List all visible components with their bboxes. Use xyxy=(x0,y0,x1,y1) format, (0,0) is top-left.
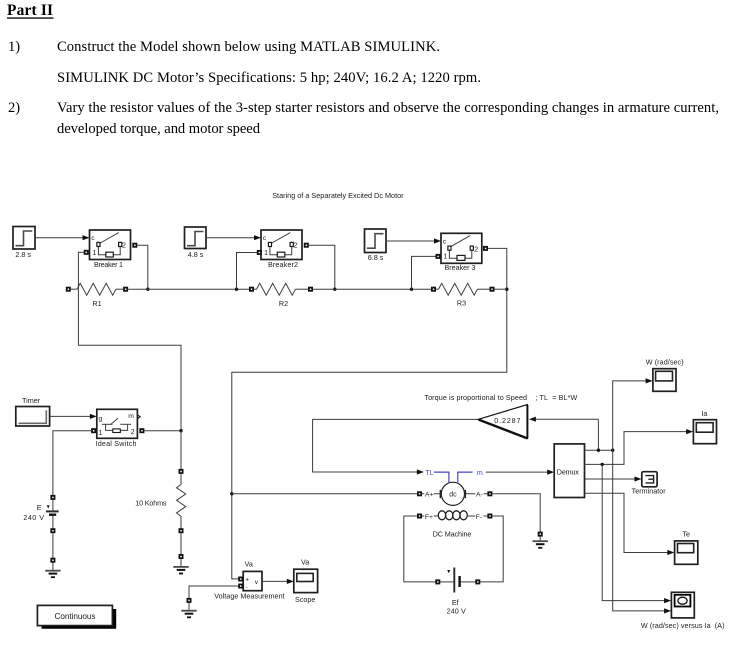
svg-text:4.8 s: 4.8 s xyxy=(188,250,204,259)
wire out1 up to W scope xyxy=(613,378,653,450)
wire Breaker1 port2 to resistor line xyxy=(137,245,148,289)
breaker B3 xyxy=(441,233,482,263)
svg-text:W (rad/sec) versus Ia (A): W (rad/sec) versus Ia (A) xyxy=(641,621,725,630)
svg-text:g: g xyxy=(99,416,103,423)
wire Step1 to Breaker1 c xyxy=(35,235,90,240)
svg-text:Va: Va xyxy=(245,560,253,569)
wire node down to 10 Kohms xyxy=(180,431,182,469)
svg-text:2: 2 xyxy=(131,429,135,436)
svg-text:-: - xyxy=(246,585,248,592)
svg-text:1): 1) xyxy=(8,39,20,55)
svg-text:A+: A+ xyxy=(425,492,434,499)
resistor 10 Kohms top port xyxy=(179,469,184,474)
svg-text:0.2287: 0.2287 xyxy=(494,416,520,425)
wire R2 to R3 xyxy=(313,288,431,290)
breaker B2 xyxy=(261,230,302,260)
junction R3 output joins vertical xyxy=(505,288,508,291)
battery E bottom port xyxy=(50,528,55,533)
junction below Breaker2 port2 xyxy=(333,288,336,291)
svg-text:Timer: Timer xyxy=(22,396,41,405)
block Ideal Switch U1 xyxy=(97,409,140,438)
ground below Voltage Measurement xyxy=(181,598,196,617)
svg-text:Staring of a Separately Excite: Staring of a Separately Excited Dc Motor xyxy=(272,191,404,200)
wire Ideal Switch port2 to node xyxy=(144,430,181,432)
left port of R3 xyxy=(431,287,436,292)
step source Step1 xyxy=(13,227,35,250)
svg-text:1: 1 xyxy=(443,254,447,261)
svg-text:1: 1 xyxy=(99,430,103,437)
right port of R1 xyxy=(123,287,128,292)
scope block Te xyxy=(675,541,698,564)
wire gain output to TL input xyxy=(313,419,478,474)
wire Timer to Ideal Switch g xyxy=(50,414,97,419)
port F+ of DC Machine xyxy=(417,512,438,521)
svg-text:2.8 s: 2.8 s xyxy=(15,250,31,259)
resistor R3 xyxy=(436,283,490,295)
XY graph block xyxy=(671,592,694,618)
wire R1 to R2 xyxy=(128,288,249,290)
demux block xyxy=(554,444,584,498)
svg-text:c: c xyxy=(443,239,447,246)
svg-text:dc: dc xyxy=(449,492,457,499)
port A+ of DC Machine xyxy=(417,490,440,499)
svg-text:A-: A- xyxy=(476,492,483,499)
svg-text:Demux: Demux xyxy=(557,467,580,476)
svg-text:c: c xyxy=(263,235,267,242)
port 2 of Ideal Switch xyxy=(139,428,144,433)
svg-text:1: 1 xyxy=(93,250,97,257)
svg-text:R3: R3 xyxy=(457,299,466,308)
svg-text:Ef: Ef xyxy=(452,598,459,607)
svg-text:2: 2 xyxy=(474,246,478,253)
svg-text:E: E xyxy=(37,503,42,512)
port 2 of Breaker1 xyxy=(132,243,137,248)
junction below Breaker2 port1 xyxy=(235,288,238,291)
port 1 of Breaker3 xyxy=(436,254,441,259)
svg-text:Continuous: Continuous xyxy=(55,612,96,621)
port F- of DC Machine xyxy=(468,512,492,521)
wire demux out4 to Te scope xyxy=(585,493,675,555)
port plus of Voltage Measurement xyxy=(238,577,243,582)
battery E top port xyxy=(50,495,55,500)
wire Breaker2 port1 down to R line xyxy=(237,253,258,290)
scope block Va xyxy=(294,569,318,592)
battery Ef (240 V DC source) xyxy=(440,568,475,593)
port 1 of Breaker2 xyxy=(257,250,262,255)
wire F+ to battery Ef xyxy=(404,516,436,582)
right port of R3 xyxy=(490,287,495,292)
right port of R2 xyxy=(308,287,313,292)
wire m hook (blue) xyxy=(458,472,473,482)
wire Ideal Switch port1 to battery E xyxy=(53,431,91,495)
port 1 of Breaker1 xyxy=(84,250,89,255)
step source Step3 xyxy=(365,229,387,253)
svg-text:c: c xyxy=(91,235,95,242)
step source Step2 xyxy=(185,227,207,249)
svg-text:6.8 s: 6.8 s xyxy=(368,253,384,262)
ground below battery E xyxy=(45,558,60,578)
svg-text:2: 2 xyxy=(122,243,126,250)
port 2 of Breaker2 xyxy=(304,243,309,248)
wire Voltage Measurement minus to ground xyxy=(189,586,238,598)
left port of R2 xyxy=(249,287,254,292)
wire Breaker3 port2 right then down-left to node A xyxy=(232,248,507,579)
scope block W xyxy=(653,369,676,392)
wire A- to ground xyxy=(492,494,540,532)
resistor R2 xyxy=(254,283,308,295)
svg-text:Te: Te xyxy=(682,530,690,539)
block Timer xyxy=(16,407,50,427)
svg-text:Torque is proportional to Spee: Torque is proportional to Speed ; TL = B… xyxy=(424,393,577,402)
svg-text:Breaker2: Breaker2 xyxy=(268,260,298,269)
port 1 of Ideal Switch xyxy=(91,428,96,433)
svg-text:240 V: 240 V xyxy=(447,607,466,616)
svg-text:Part II: Part II xyxy=(7,2,53,19)
resistor 10 Kohms xyxy=(177,474,186,529)
svg-text:Voltage Measurement: Voltage Measurement xyxy=(214,592,284,601)
wire demux out1 xyxy=(585,449,615,452)
svg-text:SIMULINK DC Motor’s Specificat: SIMULINK DC Motor’s Specifications: 5 hp… xyxy=(57,70,481,86)
svg-text:Construct the Model shown belo: Construct the Model shown below using MA… xyxy=(57,39,440,55)
svg-text:m: m xyxy=(128,413,134,420)
junction node at Ideal Switch output xyxy=(179,429,182,432)
scope block Ia xyxy=(693,420,716,444)
wire speed feed into gain xyxy=(529,417,599,451)
battery Ef right port xyxy=(475,579,480,584)
wire Breaker3 port1 down to R line xyxy=(412,256,436,289)
wire battery E to ground xyxy=(52,533,54,558)
svg-text:Va: Va xyxy=(301,558,309,567)
wire demux out2 to Ia scope xyxy=(585,429,694,466)
wire Step3 to Breaker3 c xyxy=(386,238,441,243)
svg-text:10 Kohms: 10 Kohms xyxy=(135,498,167,507)
svg-text:Scope: Scope xyxy=(295,595,315,604)
wire node to A+ xyxy=(232,493,417,495)
svg-text:240 V: 240 V xyxy=(23,513,44,522)
svg-text:Breaker 1: Breaker 1 xyxy=(94,260,123,269)
svg-text:R2: R2 xyxy=(279,299,288,308)
svg-text:1: 1 xyxy=(264,250,268,257)
svg-text:TL: TL xyxy=(425,470,433,477)
port A- of DC Machine xyxy=(465,490,492,499)
junction below Breaker3 port1 xyxy=(410,288,413,291)
powergui block Continuous xyxy=(37,605,116,628)
dc machine armature circle xyxy=(440,482,465,505)
wire TL hook (blue) xyxy=(434,472,449,482)
svg-text:Vary the resistor values of th: Vary the resistor values of the 3-step s… xyxy=(57,100,719,116)
block Voltage Measurement xyxy=(243,571,262,591)
field inductor of DC Machine xyxy=(438,511,467,520)
wire out1 down to XY graph input2 xyxy=(613,450,671,613)
resistor 10 Kohms bottom port xyxy=(179,528,184,533)
svg-text:developed torque, and motor sp: developed torque, and motor speed xyxy=(57,121,261,137)
svg-text:Terminator: Terminator xyxy=(632,487,667,496)
resistor R1 xyxy=(71,283,124,295)
svg-text:F+: F+ xyxy=(425,514,433,521)
junction armature feed node xyxy=(230,492,233,495)
ground at A- xyxy=(533,532,548,548)
svg-text:W (rad/sec): W (rad/sec) xyxy=(646,358,684,367)
battery Ef left port xyxy=(435,579,440,584)
breaker B1 xyxy=(90,230,131,260)
wire demux out3 to Terminator xyxy=(585,476,642,481)
svg-text:R1: R1 xyxy=(92,299,101,308)
wire R3 output to vertical xyxy=(494,288,507,290)
svg-text:Ideal Switch: Ideal Switch xyxy=(96,439,137,448)
svg-text:2: 2 xyxy=(294,243,298,250)
svg-text:+: + xyxy=(245,576,249,583)
left port of R1 xyxy=(66,287,71,292)
svg-text:Ia: Ia xyxy=(701,409,707,418)
junction at R line below Breaker1 xyxy=(146,288,149,291)
port minus of Voltage Measurement xyxy=(238,584,243,589)
wire Breaker1 port1 down to Ideal Switch node xyxy=(78,252,181,430)
gain block 0.2287 xyxy=(478,405,527,439)
ground below 10 Kohms xyxy=(173,554,188,574)
svg-text:Breaker 3: Breaker 3 xyxy=(445,263,476,272)
svg-text:F-: F- xyxy=(476,514,482,521)
wire Breaker2 port2 to resistor line xyxy=(309,245,335,289)
wire m output to Demux xyxy=(486,470,554,475)
wire Step2 to Breaker2 c xyxy=(206,235,261,240)
port 2 of Breaker3 xyxy=(483,246,488,251)
svg-text:2): 2) xyxy=(8,100,20,116)
svg-text:DC Machine: DC Machine xyxy=(433,530,472,539)
battery E (240 V DC source) xyxy=(46,500,59,529)
wire F- to battery Ef xyxy=(480,516,503,582)
svg-text:m: m xyxy=(477,470,483,477)
svg-text:v: v xyxy=(255,579,259,586)
terminator block xyxy=(642,472,657,487)
wire 10 Kohms to ground xyxy=(180,533,182,554)
wire out2 down to XY graph input1 xyxy=(602,464,671,603)
wire Voltage Measurement to Scope Va xyxy=(262,579,294,584)
